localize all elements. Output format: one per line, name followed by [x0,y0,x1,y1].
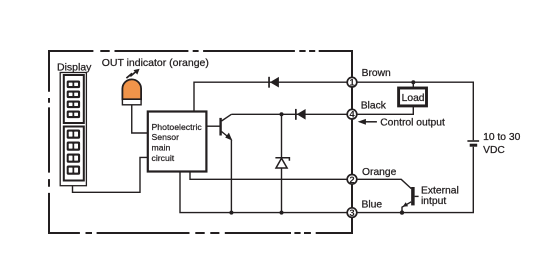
svg-text:10 to 30: 10 to 30 [483,132,520,143]
svg-text:Sensor: Sensor [152,132,180,142]
svg-text:1: 1 [349,78,355,89]
svg-text:Photoelectric: Photoelectric [152,122,203,132]
svg-text:External: External [421,186,459,197]
svg-text:OUT indicator (orange): OUT indicator (orange) [102,57,209,69]
svg-text:Display: Display [57,62,92,74]
svg-text:Blue: Blue [362,200,383,211]
svg-text:2: 2 [349,175,354,186]
svg-text:Control output: Control output [380,118,445,129]
svg-text:intput: intput [421,196,446,207]
svg-text:main: main [152,143,171,153]
svg-text:circuit: circuit [152,153,175,163]
svg-text:Orange: Orange [362,167,397,178]
svg-text:Black: Black [361,100,387,111]
svg-text:VDC: VDC [483,145,505,156]
svg-text:Brown: Brown [362,68,391,79]
svg-text:4: 4 [349,110,355,121]
svg-text:3: 3 [349,208,354,219]
svg-text:Load: Load [402,93,425,104]
